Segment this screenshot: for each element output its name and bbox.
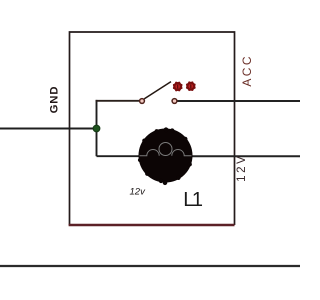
svg-text:12V: 12V (236, 154, 248, 182)
svg-text:L1: L1 (183, 189, 203, 211)
svg-text:12v: 12v (130, 187, 147, 198)
svg-text:ACC: ACC (240, 54, 254, 87)
svg-text:GND: GND (48, 86, 60, 114)
